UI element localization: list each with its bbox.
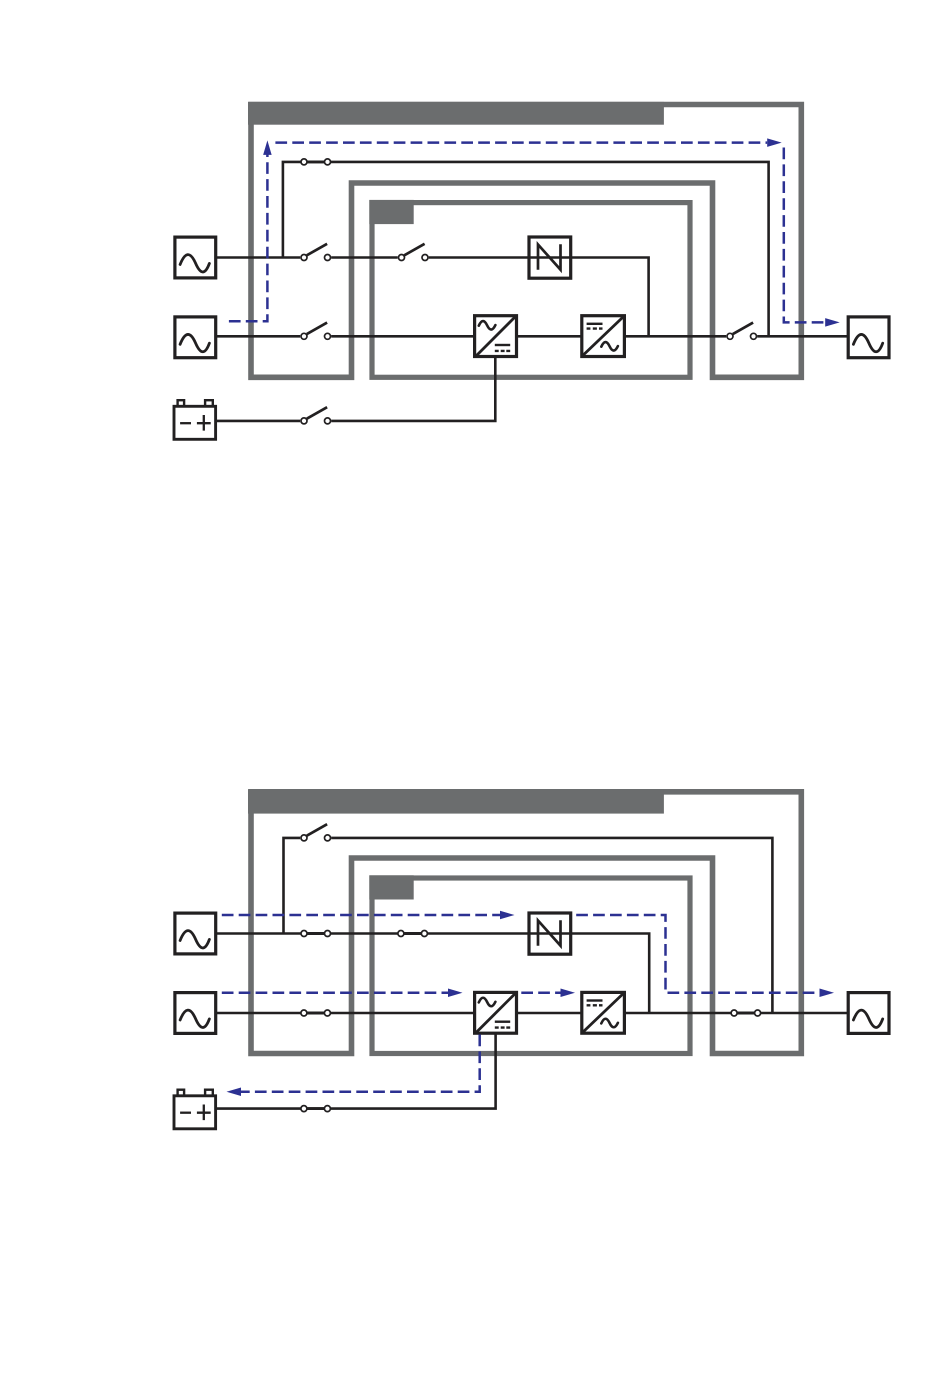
switch: output breaker open (top diagram) [726,323,757,340]
switch: input 2 breaker open (top diagram) [300,323,331,340]
UPS cabinet arch frame (top diagram) [251,105,801,378]
inner module header tab (top diagram) [369,200,413,224]
wire: battery line (bottom diagram) [216,1033,496,1109]
power flow: battery charging path (bottom diagram) [241,1035,480,1092]
static switch box N (top diagram) [529,237,571,278]
inner module header tab (bottom diagram) [369,875,413,899]
wire: AC input 2 to rectifier (top diagram) [216,335,474,338]
AC mains source 2 / bypass source (top diagram) [175,317,216,358]
AC mains source 1 (top diagram) [175,237,216,278]
inverter DC/AC converter (top diagram) [582,316,625,357]
inverter DC/AC converter (bottom diagram) [582,992,625,1033]
power flow arrow into inverter (bottom diagram) [561,989,576,998]
wire: maintenance bypass line (top diagram) [283,162,769,336]
power flow arrow up (top diagram) [263,140,272,155]
switch: static switch input breaker closed (bottom diagram) [398,931,428,937]
AC output load (bottom diagram) [848,993,889,1034]
switch: output breaker closed (bottom diagram) [731,1010,761,1016]
wire: rectifier to inverter DC link (top diagram) [517,335,583,338]
wire: inverter to output (top diagram) [624,335,847,338]
power flow: rectifier to inverter (bottom diagram) [521,992,560,995]
switch: input 2 breaker closed (bottom diagram) [301,1010,331,1016]
power flow arrow into battery (bottom diagram) [227,1088,242,1097]
AC mains source 1 (bottom diagram) [175,913,216,954]
power flow: static switch to output (bottom diagram) [576,915,819,993]
static switch box N (bottom diagram) [529,913,571,954]
power flow arrow into load (bottom diagram) [820,988,835,997]
AC mains source 2 (bottom diagram) [175,993,216,1034]
power flow arrow into static switch (bottom diagram) [500,911,515,920]
battery (bottom diagram) [174,1090,216,1129]
power flow: top bypass channel (top diagram) [275,141,767,144]
wire: inverter to output (bottom diagram) [624,1012,847,1015]
UPS cabinet arch frame (bottom diagram) [251,792,801,1054]
inner power module box (top diagram) [372,203,690,378]
cabinet header bar (top diagram) [248,102,664,125]
wire: maintenance bypass line (bottom diagram) [284,838,773,1013]
power flow: AC2 to rectifier (bottom diagram) [222,992,448,995]
power flow arrow into load (top diagram) [825,318,840,327]
power flow arrow right at channel end (top diagram) [767,138,782,147]
N glyph of static switch (top diagram) [538,244,561,269]
switch: static switch input breaker open (top diagram) [398,244,429,261]
switch: maintenance bypass breaker closed (top diagram) [301,159,331,165]
wire: AC input 2 to rectifier (bottom diagram) [216,1012,474,1015]
wire: rectifier to inverter DC link (bottom diagram) [517,1012,583,1015]
power flow arrow into rectifier (bottom diagram) [448,989,463,998]
rectifier AC/DC converter (bottom diagram) [475,992,517,1033]
inner power module box (bottom diagram) [372,878,690,1054]
power flow: AC1 to static switch (bottom diagram) [222,914,500,917]
switch: input 1 breaker open (top diagram) [300,244,331,261]
switch: maintenance bypass breaker open (bottom diagram) [300,824,331,841]
rectifier AC/DC converter (top diagram) [475,316,517,357]
switch: input 1 breaker closed (bottom diagram) [301,931,331,937]
wire: AC input 1 to static switch (bottom diagram) [216,934,649,1014]
N glyph of static switch (bottom diagram) [538,920,561,945]
AC output load (top diagram) [848,317,889,358]
battery (top diagram) [174,400,216,439]
power flow: bypass source riser (top diagram) [229,154,268,321]
wire: AC input 1 to static switch (top diagram) [216,258,649,337]
switch: battery breaker open (top diagram) [300,407,331,424]
switch: battery breaker closed (bottom diagram) [301,1106,331,1112]
cabinet header bar (bottom diagram) [248,789,664,813]
wire: battery line (top diagram) [216,357,495,421]
power flow: down to output (top diagram) [784,148,825,323]
